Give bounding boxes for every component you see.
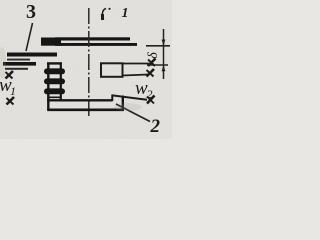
svg-text:1: 1 (10, 84, 16, 98)
svg-text:3: 3 (26, 1, 36, 23)
armature plate 1 top edge (55, 37, 130, 40)
armature plate 1 solid left end (41, 38, 61, 46)
paper background (0, 0, 172, 139)
winding w2 coil rectangle (101, 63, 123, 77)
part 3 lamination bar 4 (5, 68, 28, 70)
svg-text:2: 2 (150, 116, 161, 137)
coil turn 1 (44, 68, 65, 74)
part 3 lamination bar 2 (7, 59, 30, 61)
coil turn 2 (44, 78, 65, 84)
gap dimension extension line (upper, from plate bottom) (146, 45, 170, 47)
winding w2 lower lead (122, 75, 148, 76)
winding w2 lower terminal arrow (147, 69, 155, 77)
core left limb left edge (47, 63, 49, 111)
label Γ' tick mark (102, 8, 110, 20)
winding w2 upper lead (122, 63, 149, 65)
leader line to part 2 (116, 104, 150, 122)
part 2 lower terminal arrow (147, 96, 155, 104)
part 2 right edge (122, 96, 124, 111)
part 2 lower lead (step top edge continuing right) (112, 95, 148, 100)
leader line to part 3 (26, 23, 33, 51)
svg-text:1: 1 (122, 6, 129, 21)
centerline (dash-dot axis of symmetry) (88, 8, 90, 116)
core left limb top cap (47, 62, 62, 64)
scan smudge lower right (114, 103, 142, 111)
winding w1 terminal arrow (lower) (7, 97, 15, 105)
label w1 (0, 75, 16, 98)
gap dimension line with arrowheads (162, 29, 166, 79)
part 2 top edge (47, 99, 113, 101)
svg-text:δ: δ (146, 52, 161, 59)
winding w1 terminal arrow (upper) (6, 71, 14, 79)
part 2 bottom edge (47, 109, 124, 112)
coil bottom cap (48, 96, 61, 98)
armature plate 1 bottom edge (55, 43, 137, 46)
gap dimension extension line (lower, from pole top) (147, 64, 168, 66)
part 2 step vertical (111, 95, 113, 101)
coil turn 3 (44, 88, 65, 94)
part 3 lamination bar 1 (7, 53, 57, 57)
core left limb right edge (60, 63, 62, 100)
part 3 lamination bar 3 (3, 62, 36, 66)
label w2 (135, 78, 153, 101)
scan smudge left edge (0, 47, 6, 79)
winding w2 upper terminal arrow (148, 59, 156, 67)
